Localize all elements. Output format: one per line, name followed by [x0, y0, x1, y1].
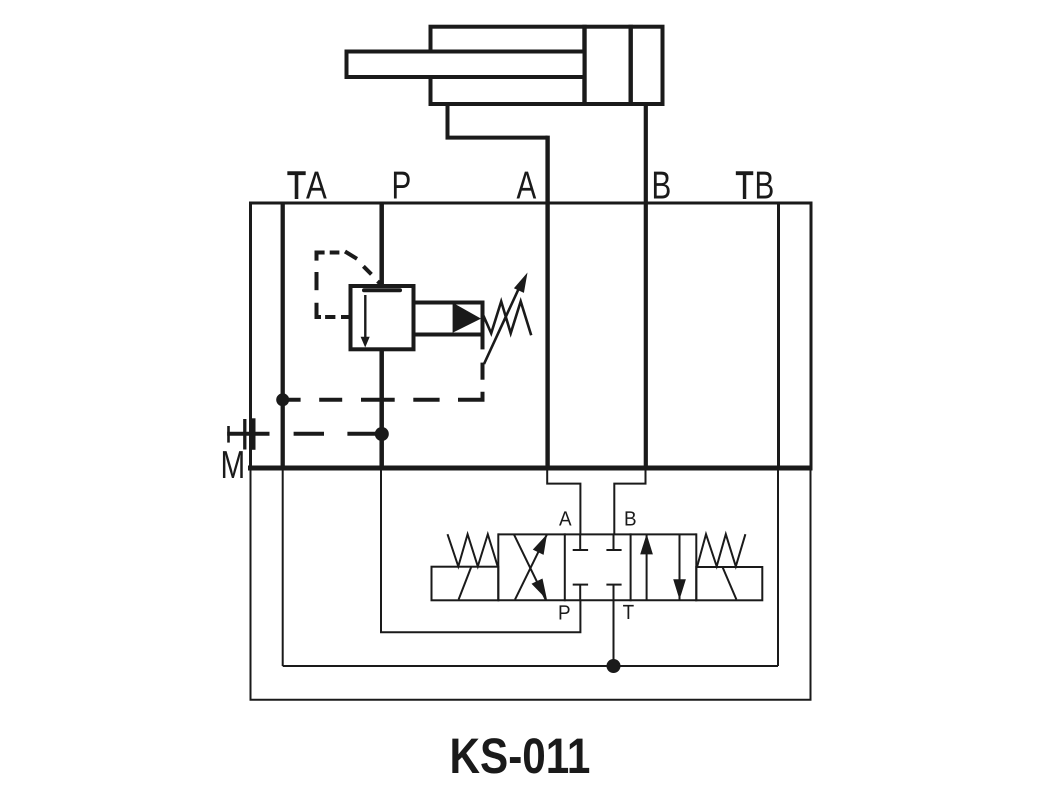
wire B manifold to valve port B — [614, 468, 645, 534]
valve V1 adjustment arrow — [484, 273, 528, 365]
svg-text:T: T — [736, 165, 754, 208]
valve V1 flow arrow — [361, 295, 370, 348]
port line TB — [777, 203, 780, 468]
svg-text:P: P — [558, 602, 571, 625]
wire TB drain drop — [777, 468, 779, 666]
port line TA — [281, 203, 285, 468]
drain line dashed from valve V1 to TA — [283, 337, 483, 400]
wire B cylinder port to manifold — [644, 104, 648, 470]
svg-text:B: B — [652, 165, 672, 208]
junction node on T drain — [607, 659, 621, 673]
svg-text:T: T — [287, 165, 306, 208]
spring right — [697, 534, 745, 566]
solenoid right — [696, 567, 762, 600]
svg-text:B: B — [755, 165, 775, 208]
wire A manifold to valve port A — [547, 468, 580, 534]
pilot line dashed (valve V1 remote control) — [317, 252, 382, 318]
pressure valve V1 body — [351, 286, 414, 349]
valve V1 actuator box — [414, 303, 483, 335]
wire T drain horizontal — [283, 665, 778, 667]
U1 center position blocked ports — [573, 534, 622, 600]
U1 left position crossed arrows — [514, 534, 547, 600]
cylinder rod — [347, 52, 585, 78]
svg-text:P: P — [392, 165, 412, 208]
cylinder C1 body — [431, 27, 663, 104]
wire A cylinder port to manifold — [448, 104, 548, 470]
port line P — [379, 203, 384, 468]
cylinder piston — [585, 25, 631, 106]
wire P manifold to valve port P — [381, 468, 580, 632]
wire TA drain drop — [282, 468, 284, 666]
wire T valve port to drain — [613, 600, 615, 666]
node on P line — [375, 427, 389, 441]
U1 right position parallel arrows — [640, 534, 686, 600]
manifold block outline — [249, 202, 813, 469]
svg-text:A: A — [559, 508, 572, 531]
enclosure outline — [251, 468, 811, 700]
spring left — [448, 534, 498, 566]
svg-text:A: A — [306, 165, 327, 208]
label TB — [736, 165, 775, 208]
svg-text:B: B — [624, 508, 637, 531]
valve V1 spring — [483, 301, 532, 335]
label TA — [287, 165, 327, 208]
manifold bottom edge — [248, 466, 813, 471]
svg-text:T: T — [623, 601, 635, 624]
gauge port M line dashed — [227, 432, 376, 436]
valve V1 pilot triangle — [453, 303, 481, 333]
directional valve U1 body — [498, 533, 696, 601]
solenoid left — [432, 567, 499, 601]
svg-text:M: M — [221, 444, 246, 487]
valve V1 seat bar — [364, 288, 400, 292]
svg-text:KS-011: KS-011 — [450, 728, 591, 784]
node on TA line — [276, 393, 289, 406]
svg-text:A: A — [517, 165, 537, 208]
gauge port M plug ticks — [229, 418, 254, 450]
